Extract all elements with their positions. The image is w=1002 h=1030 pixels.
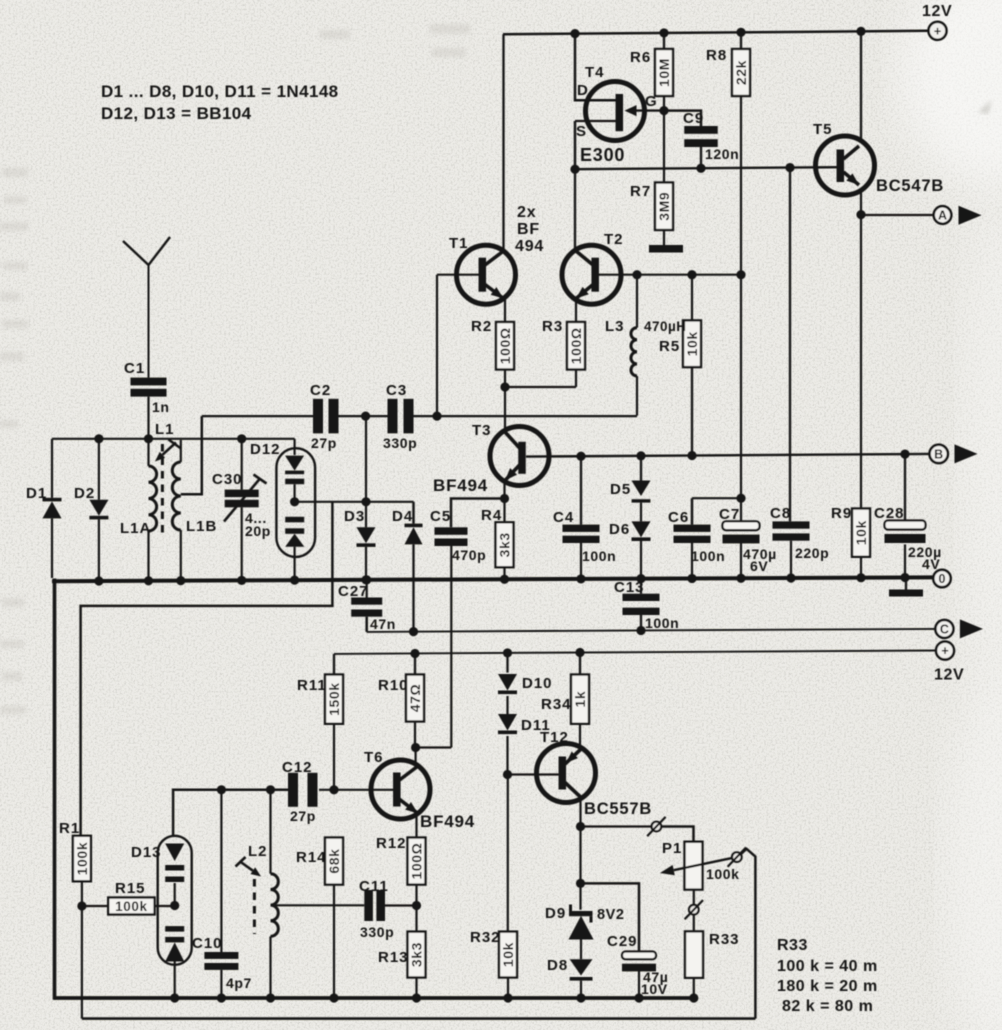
diode D6 1N4148 — [609, 503, 651, 578]
svg-text:R14: R14 — [296, 849, 327, 866]
resistor R5 10k — [659, 275, 701, 456]
wire 0V rail — [52, 573, 933, 586]
wire output-B rail — [526, 449, 930, 460]
svg-text:B: B — [934, 448, 943, 462]
terminal +12V top — [922, 3, 952, 40]
label 2x BF 494 — [515, 204, 544, 255]
svg-text:R1: R1 — [59, 820, 80, 837]
capacitor C11 330p — [359, 878, 394, 940]
wire T5 collector — [860, 31, 862, 143]
node D13 tap — [170, 901, 179, 910]
resistor R8 22k — [706, 32, 750, 96]
svg-text:3k3: 3k3 — [409, 942, 425, 967]
svg-text:D6: D6 — [609, 521, 630, 538]
capacitor C12 27p — [282, 759, 318, 824]
svg-text:R10: R10 — [378, 677, 409, 694]
wire T5 emitter to R9 — [856, 188, 865, 509]
svg-text:220p: 220p — [795, 545, 829, 561]
inductor L1 core dashes — [161, 444, 164, 533]
resistor R7 3M9 — [630, 111, 673, 245]
svg-text:10k: 10k — [684, 331, 700, 356]
svg-text:D12: D12 — [250, 441, 281, 458]
svg-text:R5: R5 — [659, 338, 680, 355]
resistor R15 100k — [82, 880, 175, 915]
wire T4 source lead — [574, 121, 577, 169]
L2 tuning arrow — [236, 857, 262, 877]
wire C5 feedback link — [416, 746, 452, 748]
svg-text:T3: T3 — [472, 422, 492, 439]
inductor L2 — [248, 790, 278, 998]
capacitor C3 330p — [383, 382, 417, 451]
svg-text:D8: D8 — [547, 957, 568, 974]
svg-text:C28: C28 — [874, 505, 905, 522]
wire T2 collector riser — [574, 168, 576, 253]
svg-text:150k: 150k — [326, 682, 342, 716]
svg-text:68k: 68k — [326, 848, 342, 873]
svg-text:L3: L3 — [605, 318, 625, 335]
svg-text:R33: R33 — [709, 931, 740, 948]
plug point wiper — [728, 848, 746, 867]
svg-text:R13: R13 — [378, 949, 409, 966]
svg-text:T6: T6 — [364, 749, 384, 766]
note diode types — [101, 82, 339, 123]
svg-text:R4: R4 — [481, 507, 502, 524]
svg-text:100Ω: 100Ω — [568, 327, 584, 364]
svg-text:+: + — [941, 644, 948, 658]
svg-text:D12, D13 = BB104: D12, D13 = BB104 — [101, 104, 252, 123]
svg-text:+: + — [934, 24, 941, 38]
svg-text:BC557B: BC557B — [584, 800, 652, 818]
wire P1 bottom — [693, 890, 695, 905]
svg-text:D3: D3 — [344, 508, 365, 525]
capacitor C13 100n — [614, 579, 679, 632]
svg-text:D9: D9 — [545, 905, 566, 922]
svg-text:100k: 100k — [74, 842, 90, 876]
svg-text:A: A — [938, 209, 947, 223]
wire to R33 — [693, 914, 695, 931]
ground at C28 — [889, 578, 923, 597]
svg-text:C10: C10 — [192, 935, 223, 952]
svg-text:R2: R2 — [471, 318, 492, 335]
svg-text:S: S — [576, 123, 587, 140]
wire L1B tap to C2 line — [181, 416, 202, 494]
node R12/R13/C11 — [385, 901, 421, 910]
resistor R3 100Ω — [542, 318, 585, 370]
inductor L1B — [172, 440, 217, 578]
svg-text:C27: C27 — [338, 583, 369, 600]
svg-text:C1: C1 — [124, 360, 145, 377]
wire tuning-voltage bottom line — [82, 1017, 756, 1020]
resistor R34 1k — [541, 653, 589, 750]
svg-text:4p7: 4p7 — [226, 975, 252, 991]
wire T4 drain lead — [575, 33, 617, 101]
svg-text:C29: C29 — [607, 933, 638, 950]
wire R8 down to C6/C7 node — [740, 96, 742, 498]
svg-text:C30: C30 — [212, 471, 243, 488]
plug point a — [647, 817, 665, 836]
svg-text:C4: C4 — [553, 509, 574, 526]
zener D9 8V2 — [545, 905, 625, 960]
transistor T12 BC557B — [537, 729, 653, 818]
inductor L3 470µH — [605, 275, 687, 416]
svg-text:R32: R32 — [470, 929, 501, 946]
svg-text:C3: C3 — [386, 382, 407, 399]
svg-text:T5: T5 — [813, 121, 833, 138]
svg-text:L2: L2 — [248, 843, 268, 860]
wire D11 to T12 base — [503, 736, 559, 779]
plug point b — [685, 900, 703, 919]
svg-text:L1B: L1B — [186, 518, 217, 535]
terminal C — [935, 620, 953, 638]
wire R2 bottom — [504, 370, 506, 388]
svg-text:3k3: 3k3 — [497, 532, 513, 557]
svg-text:100n: 100n — [582, 548, 616, 564]
wire antenna input line — [52, 434, 295, 443]
svg-text:0: 0 — [939, 572, 946, 586]
svg-text:100k: 100k — [706, 866, 740, 882]
wire left ground drop — [53, 579, 57, 1000]
svg-text:C8: C8 — [770, 505, 791, 522]
svg-text:D13: D13 — [131, 844, 162, 861]
resistor R4 3k3 — [481, 507, 514, 578]
antenna — [123, 237, 170, 378]
wire T5-base node riser to C8 — [789, 168, 791, 522]
svg-text:T1: T1 — [449, 235, 469, 252]
svg-text:27p: 27p — [311, 435, 337, 451]
svg-text:120n: 120n — [705, 146, 739, 162]
svg-text:20p: 20p — [245, 523, 271, 539]
wire +12V top supply rail — [503, 27, 929, 38]
resistor R2 100Ω — [471, 318, 514, 370]
wire +12V lower line — [334, 648, 936, 658]
svg-text:10M: 10M — [656, 58, 672, 87]
svg-text:27p: 27p — [290, 808, 316, 824]
svg-text:47Ω: 47Ω — [407, 684, 423, 713]
svg-text:D1: D1 — [26, 485, 47, 502]
resistor R6 10M — [630, 32, 673, 110]
svg-text:180 k = 20 m: 180 k = 20 m — [777, 978, 878, 995]
transistor T3 BF494 — [433, 422, 549, 495]
svg-text:1n: 1n — [152, 399, 170, 415]
svg-text:R8: R8 — [706, 47, 727, 64]
svg-text:T12: T12 — [540, 729, 569, 746]
svg-text:BF494: BF494 — [420, 812, 475, 831]
wire output-C line — [367, 626, 936, 636]
svg-text:10V: 10V — [641, 981, 668, 997]
potentiometer P1 100k — [662, 840, 740, 890]
svg-text:1k: 1k — [572, 691, 588, 708]
capacitor C6 100n — [668, 498, 725, 578]
diode D3 1N4148 — [344, 416, 376, 578]
varicap D13 BB104 — [131, 836, 192, 998]
inductor L2 core dashes — [253, 879, 256, 934]
capacitor C4 100n — [553, 456, 616, 578]
svg-text:R33: R33 — [777, 937, 808, 954]
svg-text:470p: 470p — [452, 547, 486, 563]
node R1/R15 — [77, 901, 86, 910]
svg-text:E300: E300 — [580, 145, 625, 165]
capacitor C9 120n — [683, 110, 739, 169]
transistor T2 BF494 — [562, 231, 624, 304]
wire C11 left lead from L2 tap — [271, 904, 365, 906]
resistor R14 68k — [296, 838, 343, 998]
svg-text:12V: 12V — [922, 3, 952, 20]
diode D5 1N4148 — [610, 456, 651, 503]
diode D10 1N4148 — [498, 653, 553, 694]
svg-text:L1: L1 — [155, 421, 175, 438]
svg-text:330p: 330p — [360, 924, 394, 940]
diode D1 1N4148 — [26, 439, 62, 578]
svg-text:470µH: 470µH — [644, 319, 687, 334]
svg-text:2x: 2x — [517, 204, 536, 221]
svg-text:C7: C7 — [719, 506, 740, 523]
node R10/T6 collector — [411, 743, 420, 752]
svg-text:R15: R15 — [115, 880, 146, 897]
ground below R7 — [649, 245, 683, 253]
capacitor C28 220µ electrolytic — [874, 454, 942, 578]
wire C2/C3 signal line — [202, 412, 637, 421]
svg-text:BF494: BF494 — [433, 476, 488, 495]
svg-text:10k: 10k — [853, 520, 869, 545]
wire T6 collector lead — [415, 748, 417, 764]
svg-text:D5: D5 — [610, 481, 631, 498]
capacitor C30 variable 4..20p — [212, 439, 271, 578]
capacitor C10 4p7 — [192, 790, 252, 998]
capacitor C29 47µ electrolytic — [576, 879, 669, 998]
resistor R1 100k — [59, 820, 91, 1019]
terminal +12V lower — [934, 642, 964, 684]
wire T2 emitter lead — [575, 298, 577, 322]
diode D2 1N4148 — [74, 439, 108, 578]
terminal B — [930, 445, 948, 463]
resistor R11 150k — [297, 654, 343, 790]
wire C6 to R8 node — [692, 494, 746, 503]
wire switch line — [581, 825, 652, 827]
capacitor C1 1n — [124, 360, 170, 415]
svg-text:330p: 330p — [383, 435, 417, 451]
wire node to R32 — [507, 775, 509, 932]
svg-text:47n: 47n — [370, 616, 396, 632]
transistor T4 (E300 FET) — [575, 64, 664, 165]
wire T4 source line to T5 base — [570, 163, 838, 174]
wire resonator line — [221, 789, 288, 791]
wire C5 branch — [451, 499, 505, 528]
wire T2 base line — [598, 270, 746, 279]
resistor R32 10k — [470, 929, 517, 998]
wire T1 emitter lead — [504, 298, 506, 322]
capacitor C5 470p — [430, 508, 486, 748]
node D12 tap — [290, 497, 299, 506]
wire bottom ground rail — [54, 993, 698, 1002]
diode D4 1N4148 — [392, 502, 423, 632]
svg-text:C12: C12 — [282, 759, 313, 776]
node T4 gate junction — [659, 106, 668, 115]
svg-text:D10: D10 — [522, 675, 553, 692]
svg-text:6V: 6V — [750, 558, 768, 574]
svg-text:C5: C5 — [430, 508, 451, 525]
capacitor C2 27p — [310, 382, 339, 451]
terminal 0 — [933, 570, 950, 587]
svg-text:R3: R3 — [542, 318, 563, 335]
terminal A — [934, 206, 952, 224]
resistor R33 — [685, 931, 740, 998]
wire T1 base riser — [437, 275, 482, 416]
svg-text:82 k = 80 m: 82 k = 80 m — [782, 998, 873, 1015]
svg-text:C: C — [940, 623, 949, 637]
svg-text:100n: 100n — [645, 615, 679, 631]
wire D12 tap line — [295, 497, 414, 506]
svg-text:22k: 22k — [733, 60, 749, 85]
svg-text:100Ω: 100Ω — [409, 843, 425, 880]
svg-text:T2: T2 — [604, 231, 624, 248]
wire T3 emitter node — [500, 481, 509, 522]
svg-text:8V2: 8V2 — [597, 907, 625, 923]
resistor R12 100Ω — [376, 816, 426, 906]
wire gate to C9 — [664, 111, 701, 126]
transistor T1 BF494 — [449, 235, 516, 304]
wire output A lead — [861, 214, 933, 216]
svg-text:R12: R12 — [376, 835, 407, 852]
wire C1 to L1 node — [147, 397, 149, 439]
svg-text:C6: C6 — [668, 509, 689, 526]
svg-text:C9: C9 — [683, 110, 704, 127]
svg-text:C13: C13 — [614, 579, 645, 596]
wire link down to T3 collector — [504, 387, 506, 432]
wire R2/R3 emitter link — [500, 370, 576, 392]
svg-text:R34: R34 — [541, 696, 572, 713]
wire to P1 top — [661, 827, 693, 842]
arrow at B — [955, 444, 978, 463]
wire C12 to D13 — [173, 790, 288, 836]
arrow at C — [960, 619, 983, 638]
svg-text:3M9: 3M9 — [656, 192, 672, 221]
svg-text:100 k = 40 m: 100 k = 40 m — [777, 958, 878, 975]
resistor R10 47Ω — [378, 654, 424, 748]
svg-text:10k: 10k — [500, 942, 516, 967]
svg-text:D1 ... D8, D10, D11 = 1N4148: D1 ... D8, D10, D11 = 1N4148 — [101, 82, 339, 101]
svg-text:T4: T4 — [585, 64, 605, 81]
svg-text:C11: C11 — [359, 878, 389, 895]
label L1 and tuning arrow — [155, 421, 181, 462]
svg-text:100k: 100k — [115, 899, 147, 914]
wire T6 base line — [217, 785, 396, 794]
resistor R9 10k — [831, 505, 870, 578]
inductor L1A — [120, 439, 157, 578]
svg-text:100n: 100n — [691, 548, 725, 564]
wire T1 collector riser — [504, 34, 506, 252]
capacitor C27 47n — [338, 579, 396, 633]
wire T12 collector — [576, 797, 585, 910]
transistor T6 BF494 — [364, 749, 475, 831]
svg-text:R7: R7 — [630, 183, 651, 200]
transistor T5 BC547B — [813, 121, 944, 195]
svg-text:BC547B: BC547B — [876, 177, 944, 195]
capacitor C7 470µ electrolytic — [719, 498, 777, 578]
svg-text:R6: R6 — [630, 49, 651, 66]
note R33 values — [777, 937, 878, 1015]
svg-text:P1: P1 — [662, 840, 682, 857]
svg-text:100Ω: 100Ω — [497, 327, 513, 364]
svg-text:L1A: L1A — [120, 520, 151, 537]
diode D8 1N4148 — [547, 957, 593, 998]
wire tuning-voltage branch — [81, 502, 333, 836]
svg-text:D4: D4 — [392, 508, 413, 525]
svg-text:12V: 12V — [934, 667, 964, 684]
svg-text:C2: C2 — [310, 382, 331, 399]
svg-text:D2: D2 — [74, 485, 95, 502]
resistor R13 3k3 — [378, 906, 426, 998]
arrow at A — [959, 206, 982, 225]
P1 wiper arrow — [660, 858, 733, 875]
svg-text:D: D — [577, 82, 589, 99]
capacitor C8 220p — [770, 505, 829, 578]
wire wiper to tuning line — [741, 849, 755, 1019]
diode D11 1N4148 — [498, 696, 551, 734]
varicap D12 BB104 — [250, 439, 315, 578]
svg-text:R11: R11 — [297, 677, 327, 694]
svg-text:494: 494 — [515, 238, 544, 255]
svg-text:BF: BF — [517, 221, 540, 238]
svg-text:R9: R9 — [831, 505, 852, 522]
